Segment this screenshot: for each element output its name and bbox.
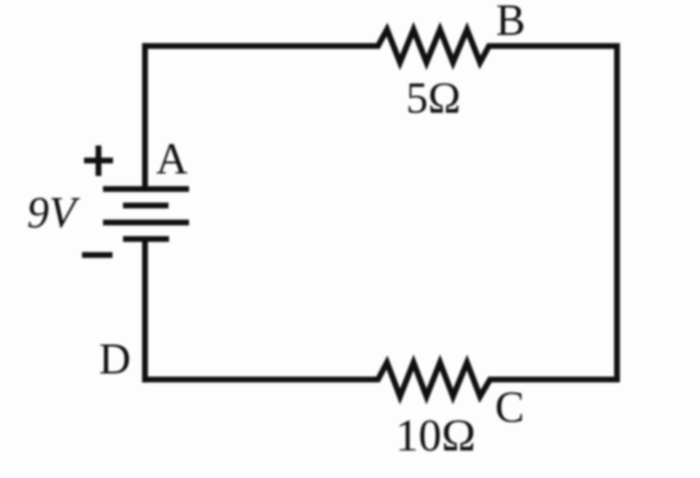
svg-text:D: D: [99, 335, 131, 384]
svg-text:C: C: [495, 383, 524, 432]
svg-text:5Ω: 5Ω: [406, 74, 461, 123]
svg-text:B: B: [496, 0, 525, 45]
svg-text:9V: 9V: [27, 188, 81, 237]
svg-text:10Ω: 10Ω: [396, 410, 476, 461]
svg-text:A: A: [156, 134, 188, 183]
